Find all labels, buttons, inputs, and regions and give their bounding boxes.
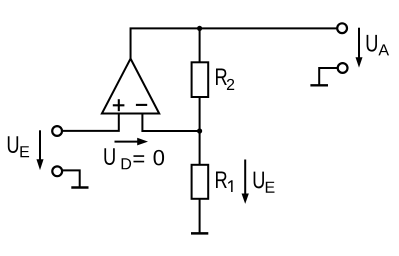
label UE input xyxy=(8,136,29,157)
resistor R1 xyxy=(192,165,209,199)
terminal output top circle xyxy=(337,23,347,33)
wire inverting input leg and feedback run xyxy=(142,113,199,132)
wire from middle junction down to R1 xyxy=(199,131,201,165)
node junction top (feedback tap) xyxy=(197,26,202,31)
label R1 xyxy=(216,171,233,192)
op-amp U1 triangle xyxy=(102,59,159,114)
wire from R1 bottom to ground xyxy=(199,199,201,233)
wire from top junction down to R2 xyxy=(199,28,201,62)
op-amp minus input marking xyxy=(136,104,147,106)
resistor R2 xyxy=(192,62,209,97)
label UA xyxy=(367,35,389,56)
label UD = 0 xyxy=(104,148,164,169)
label UE across R1 xyxy=(254,172,275,193)
ground under R1 xyxy=(191,232,208,235)
terminal input lower circle xyxy=(52,166,62,176)
wire from R2 bottom to middle junction xyxy=(199,97,201,131)
terminal input top circle xyxy=(52,126,62,136)
node junction middle (inverting input net) xyxy=(197,128,202,133)
ground at input xyxy=(71,186,88,188)
arrow UE across R1 xyxy=(242,160,249,204)
wire from lower input terminal to ground hook xyxy=(62,170,80,187)
wire top horizontal from op-amp output to output terminal xyxy=(131,28,342,59)
arrow UE input xyxy=(36,130,43,170)
op-amp plus input marking xyxy=(113,99,125,111)
terminal output lower circle xyxy=(338,63,348,73)
arrow UD across op-amp inputs xyxy=(115,138,149,146)
arrow UA output xyxy=(356,28,363,68)
label R2 xyxy=(216,68,234,90)
ground at output xyxy=(310,84,328,86)
wire from lower output terminal to ground hook xyxy=(319,68,338,85)
wire non-inverting input leg to input terminal xyxy=(57,113,119,131)
